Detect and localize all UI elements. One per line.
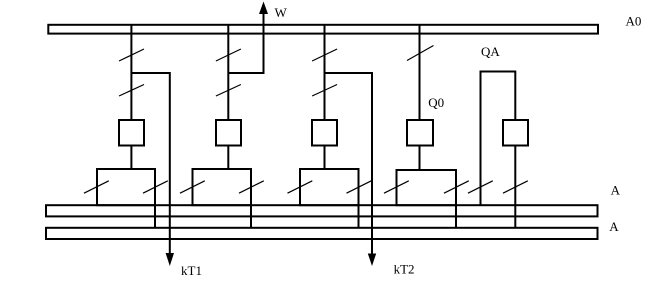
wire branch to kT2 xyxy=(325,73,373,255)
bus A0 (top busbar rectangle) xyxy=(48,25,598,34)
svg-text:Q0: Q0 xyxy=(428,95,444,110)
contact slash cell 1 left xyxy=(84,181,109,193)
svg-text:A: A xyxy=(611,183,621,198)
disconnector slash QS2a xyxy=(216,49,241,61)
svg-text:kT1: kT1 xyxy=(181,263,202,278)
cell box (big) feeder 2 xyxy=(193,169,252,205)
breaker box (small) feeder 1 xyxy=(119,120,144,146)
disconnector slash QS1b xyxy=(119,85,144,97)
wire cell right edge to lower bus A, feeder 2 xyxy=(250,205,252,228)
disconnector slash QS1a xyxy=(119,49,144,61)
feeder 4 drop wire from bus A0 (Q0) xyxy=(419,24,421,120)
breaker box (small) feeder 2 xyxy=(216,120,241,146)
bus A (lower bottom busbar) xyxy=(46,228,598,239)
disconnector slash QS3b xyxy=(312,85,337,97)
contact slash cell 1 right xyxy=(143,181,168,193)
feeder 1 drop wire from bus A0 xyxy=(130,24,132,120)
arrow kT2 xyxy=(368,254,376,267)
wire box to cell feeder 2 xyxy=(227,146,229,170)
svg-text:W: W xyxy=(275,5,288,20)
wire box to cell feeder 4 xyxy=(419,146,421,171)
wire cell right edge to lower bus A, feeder 4 xyxy=(455,205,457,228)
contact slash cell 2 left xyxy=(180,181,205,193)
breaker box (small) feeder 3 xyxy=(312,120,337,146)
contact slash cell 3 right xyxy=(347,181,372,193)
breaker box (small) QA xyxy=(503,120,528,146)
wire box to cell feeder 1 xyxy=(130,146,132,170)
contact slash cell 3 left xyxy=(288,181,313,193)
wire branch to W arrow xyxy=(228,14,263,73)
svg-text:A0: A0 xyxy=(626,13,642,28)
svg-text:QA: QA xyxy=(481,44,500,59)
wire branch to kT1 xyxy=(131,73,169,254)
feeder 3 drop wire from bus A0 xyxy=(324,24,326,120)
svg-text:kT2: kT2 xyxy=(394,261,415,276)
bus A (upper bottom busbar) xyxy=(46,205,598,216)
contact slash QA left leg xyxy=(468,181,493,193)
cell box (big) feeder 4 xyxy=(397,170,457,205)
contact slash cell 4 left xyxy=(384,181,409,193)
svg-text:A: A xyxy=(609,219,619,234)
disconnector slash Q0 xyxy=(407,46,434,61)
cell box (big) feeder 3 xyxy=(300,169,359,205)
wire cell right edge to lower bus A, feeder 3 xyxy=(358,205,360,228)
contact slash cell 2 right xyxy=(239,181,264,193)
wire QA right leg to lower bus A xyxy=(514,146,516,228)
breaker box (small) feeder 4 xyxy=(407,120,433,146)
wire cell right edge to lower bus A, feeder 1 xyxy=(154,205,156,228)
arrow W (up) xyxy=(259,2,268,15)
cell box (big) feeder 1 xyxy=(97,169,155,205)
arrow kT1 xyxy=(166,253,174,266)
disconnector slash QS2b xyxy=(216,85,241,97)
feeder 2 drop wire from bus A0 xyxy=(227,24,229,120)
bus coupler QA bridge wire xyxy=(481,72,516,206)
contact slash cell 4 right xyxy=(444,181,469,193)
contact slash QA right leg xyxy=(503,181,528,193)
wire box to cell feeder 3 xyxy=(324,146,326,170)
disconnector slash QS3a xyxy=(312,49,337,61)
